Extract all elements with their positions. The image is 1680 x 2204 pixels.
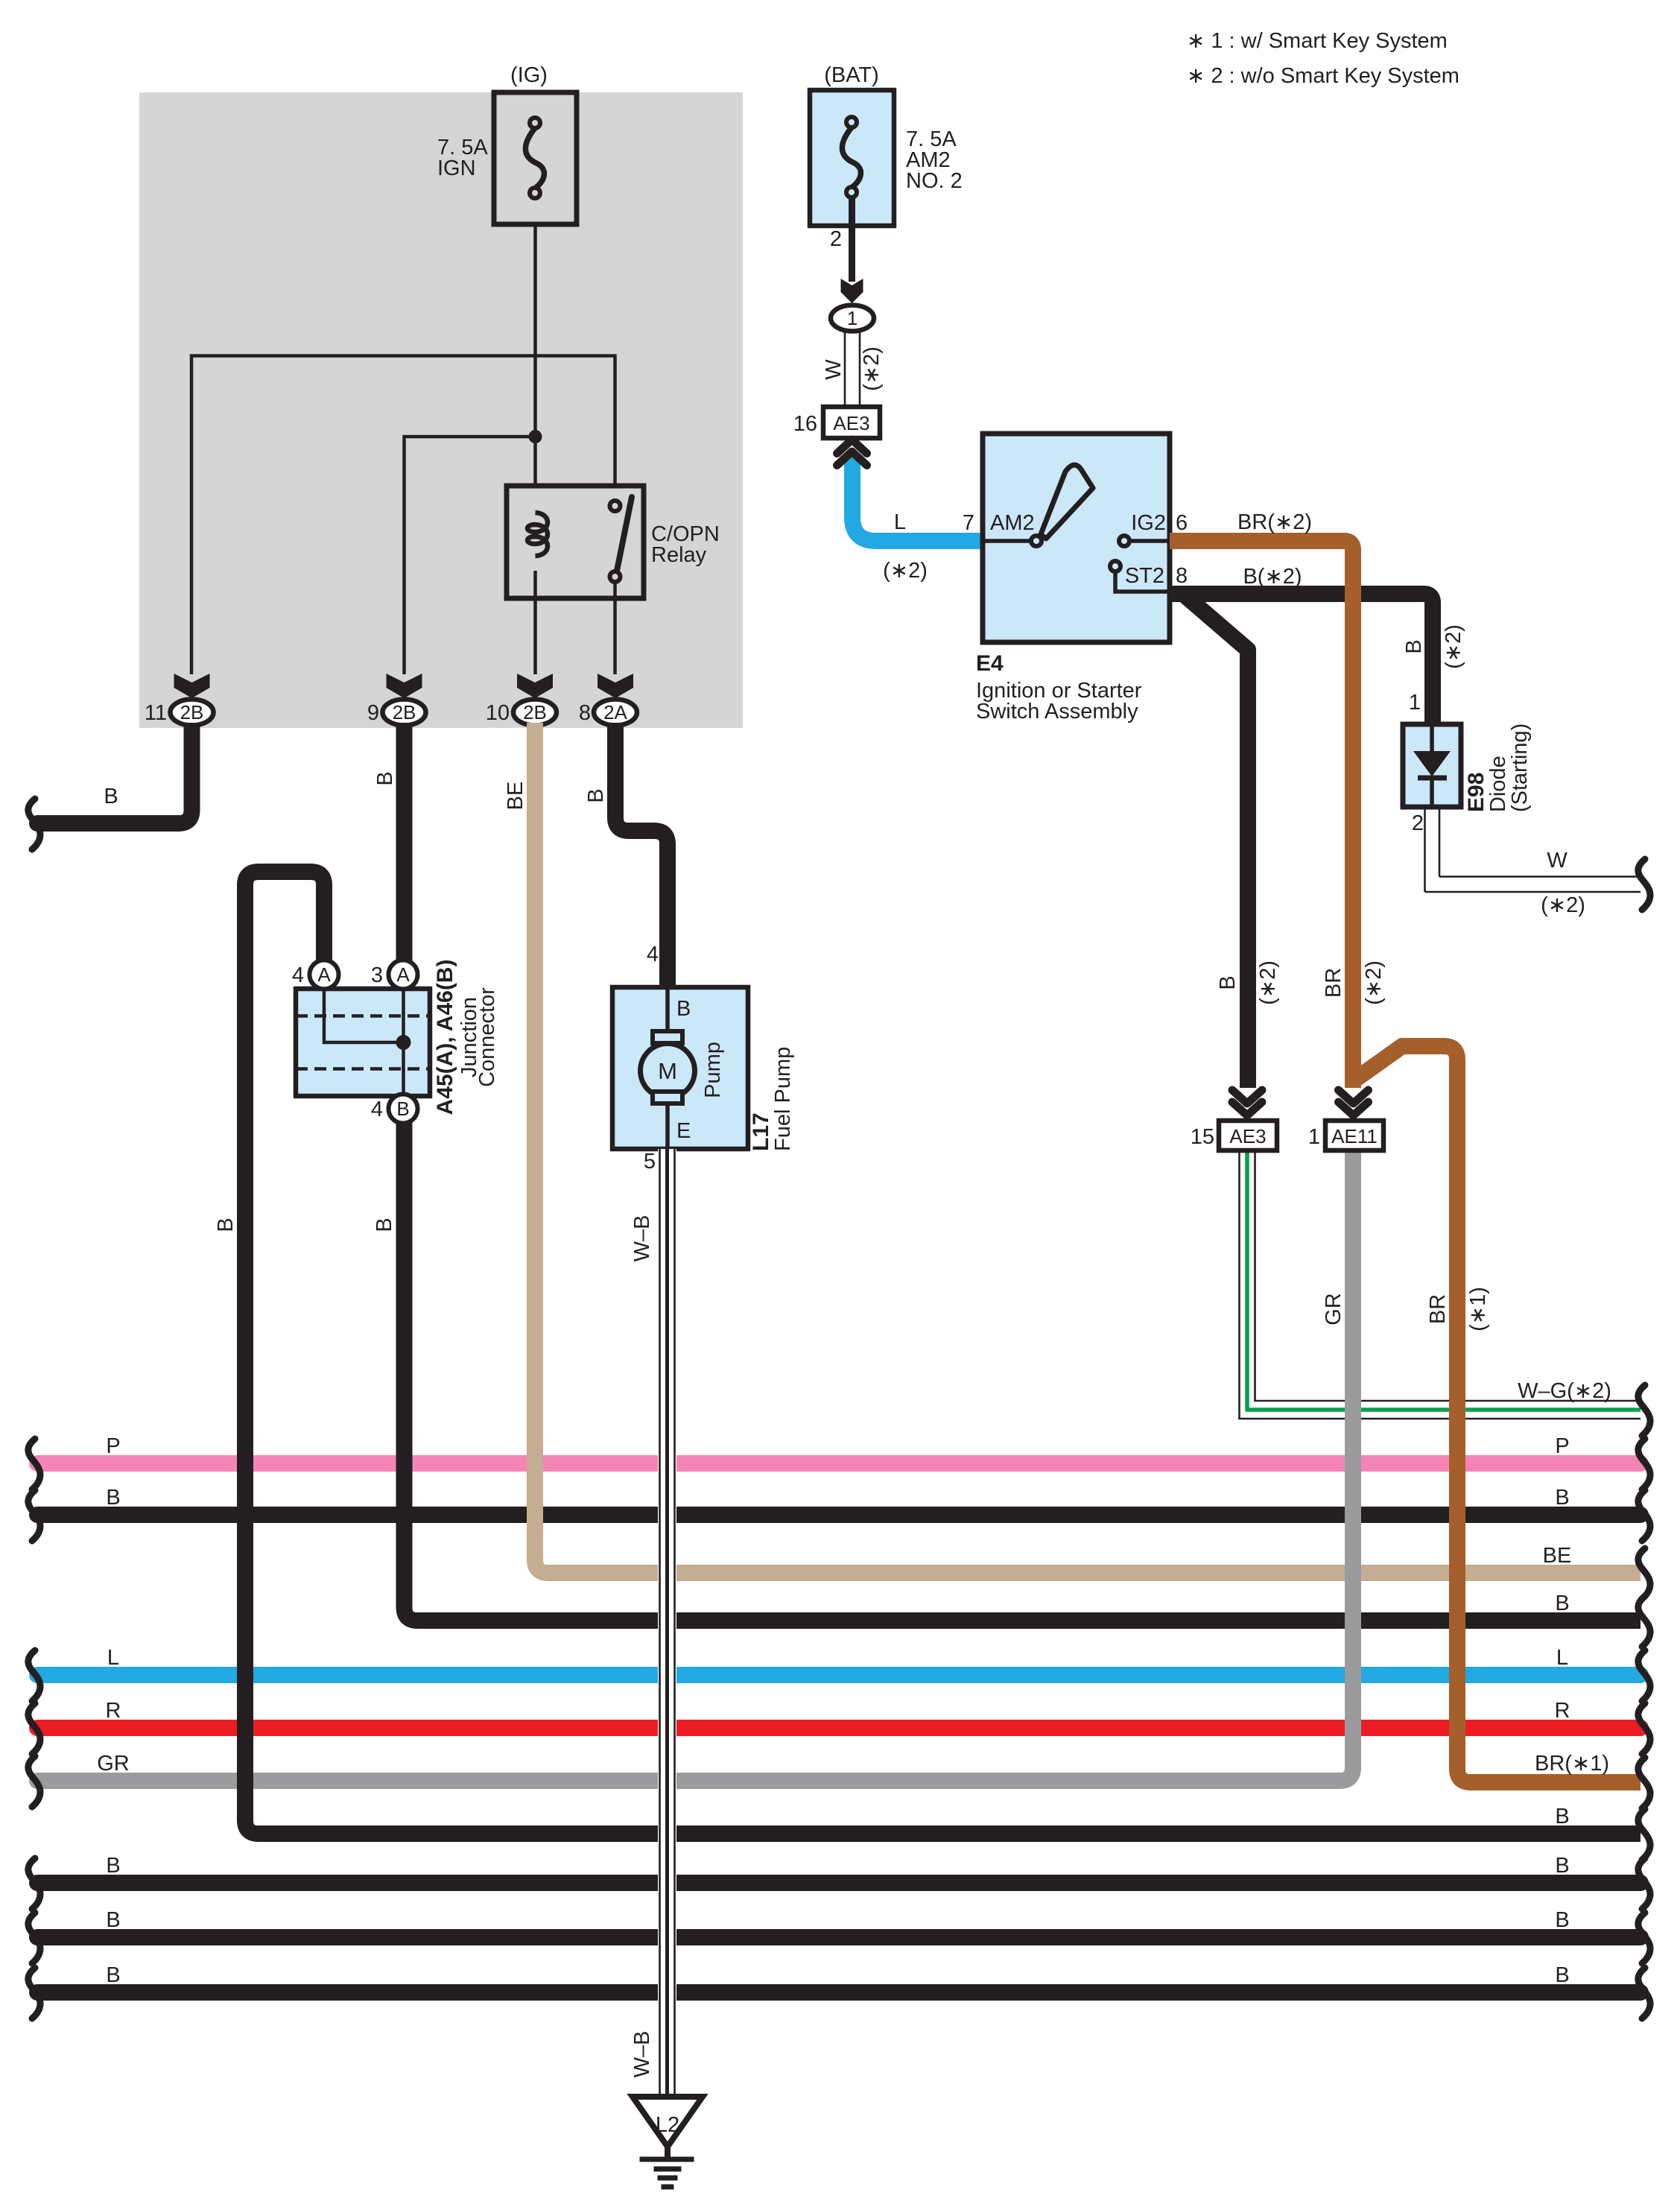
fuse IGN box	[494, 92, 577, 224]
bus B y2527	[37, 1875, 1641, 1891]
svg-text:4: 4	[647, 943, 659, 966]
svg-text:1: 1	[1308, 1125, 1320, 1149]
wire: horizontal branch y478	[191, 356, 615, 675]
svg-text:∗ 1 : w/ Smart Key System: ∗ 1 : w/ Smart Key System	[1187, 29, 1448, 53]
bus B y2674 right curl	[1638, 1968, 1650, 2018]
svg-text:8: 8	[1176, 564, 1188, 588]
svg-text:BR: BR	[1426, 1294, 1450, 1324]
wire W-G right curl	[1638, 1385, 1650, 1436]
fuse AM2 box	[810, 90, 894, 226]
svg-text:B: B	[1216, 975, 1240, 989]
svg-text:B: B	[676, 997, 691, 1021]
diode internal wire bottom	[1430, 778, 1434, 807]
svg-text:B: B	[1402, 639, 1426, 653]
connector box 1 AE11	[1325, 1121, 1383, 1150]
svg-text:(∗2): (∗2)	[1362, 960, 1386, 1005]
connector arrow 10	[517, 674, 553, 698]
wire W-G from connector 15 AE3	[1238, 1150, 1641, 1419]
E4 ignition switch box	[983, 434, 1170, 642]
wire B stub curl	[28, 799, 40, 849]
bus GR left curl	[28, 1756, 40, 1807]
svg-text:E98: E98	[1464, 773, 1489, 812]
svg-text:B: B	[104, 785, 118, 808]
connector ellipse 1	[831, 305, 874, 332]
label C/OPN Relay	[651, 522, 720, 567]
svg-text:B: B	[1555, 1963, 1569, 1987]
svg-text:4: 4	[371, 1098, 383, 1121]
connector arrow 9	[387, 674, 422, 698]
diode bar	[1418, 776, 1447, 781]
wire: branch to connector 9	[405, 437, 536, 674]
E4 AM2 contact wire	[983, 539, 1032, 543]
svg-text:B: B	[106, 1486, 120, 1510]
svg-text:BR(∗1): BR(∗1)	[1535, 1752, 1609, 1776]
svg-text:2A: 2A	[603, 701, 627, 723]
svg-text:B: B	[1555, 1854, 1569, 1878]
svg-text:2: 2	[1412, 811, 1424, 835]
svg-text:7: 7	[963, 511, 974, 535]
diode triangle	[1413, 751, 1451, 776]
bus B y2527 right curl	[1638, 1858, 1650, 1909]
ground stem	[665, 2147, 671, 2159]
relay coil	[527, 513, 548, 556]
svg-text:B(∗2): B(∗2)	[1243, 565, 1302, 589]
E4 AM2 contact circle	[1031, 536, 1042, 546]
label 7.5A AM2 NO.2	[906, 127, 963, 193]
junction connector dashed line 2	[296, 1067, 430, 1071]
svg-text:E4: E4	[976, 651, 1004, 676]
svg-text:Connector: Connector	[475, 987, 499, 1087]
svg-text:(∗2): (∗2)	[883, 559, 928, 583]
svg-text:(∗1): (∗1)	[1466, 1287, 1490, 1331]
svg-text:6: 6	[1176, 511, 1188, 535]
svg-text:B: B	[106, 1963, 120, 1987]
bus L right curl	[1638, 1650, 1650, 1701]
fuse AM2 symbol	[842, 117, 860, 197]
svg-text:W: W	[822, 359, 846, 380]
wire fuse AM2 down	[849, 197, 855, 282]
svg-text:P: P	[106, 1434, 120, 1458]
svg-text:B: B	[396, 1098, 409, 1120]
connector arrow 8	[597, 674, 633, 698]
fuel pump pin E wire	[665, 1103, 670, 1149]
svg-text:3: 3	[371, 963, 383, 987]
wire W from connector 1 to AE3	[845, 332, 860, 408]
wire B y2175 right curl	[1638, 1596, 1650, 1647]
svg-text:IGN: IGN	[437, 156, 476, 180]
svg-text:NO. 2: NO. 2	[906, 169, 963, 193]
svg-text:Pump: Pump	[701, 1042, 725, 1098]
svg-text:A: A	[317, 963, 331, 986]
svg-text:L: L	[107, 1646, 119, 1670]
chevrons down into AE3 15	[1232, 1090, 1262, 1115]
wire B y2461 right curl	[1638, 1809, 1650, 1860]
fuel pump motor brush bottom	[653, 1092, 682, 1103]
bus P pink	[37, 1455, 1641, 1472]
svg-text:B: B	[106, 1908, 120, 1932]
bus R left curl	[28, 1703, 40, 1754]
svg-text:GR: GR	[97, 1752, 130, 1776]
svg-text:M: M	[658, 1058, 677, 1084]
bus B y2033 left curl	[28, 1490, 40, 1541]
wire B from E4 ST2 to diode and AE3 branch	[1170, 594, 1433, 724]
svg-text:AE3: AE3	[833, 412, 869, 434]
wire L blue from E4 AM2 to AE3	[852, 455, 983, 541]
svg-text:9: 9	[367, 701, 379, 725]
svg-text:(∗2): (∗2)	[1541, 893, 1585, 917]
relay switch bottom contact	[610, 571, 621, 582]
svg-text:L: L	[1556, 1646, 1568, 1670]
svg-text:W–B: W–B	[630, 2031, 654, 2078]
svg-text:(Starting): (Starting)	[1508, 723, 1532, 812]
relay C/OPN box	[507, 486, 644, 598]
diode internal wire top	[1430, 724, 1434, 753]
connector box 16 AE3	[823, 407, 880, 438]
svg-text:2B: 2B	[180, 701, 204, 723]
svg-text:Switch Assembly: Switch Assembly	[976, 700, 1138, 723]
svg-text:4: 4	[292, 963, 304, 987]
wire B stub from connector 11	[37, 723, 192, 823]
relay switch top contact	[610, 501, 621, 511]
bus B y2674	[37, 1984, 1641, 2001]
svg-text:AE11: AE11	[1331, 1125, 1378, 1147]
svg-text:Relay: Relay	[651, 543, 707, 567]
svg-text:(∗2): (∗2)	[1256, 960, 1280, 1005]
diode E98 box	[1403, 724, 1461, 807]
fuel pump box	[612, 987, 748, 1149]
connector ellipse 11 2B	[171, 700, 214, 726]
wire BR branch to bus BR(*1)	[1353, 1046, 1641, 1782]
wire BE tan from connector 10 to bus	[535, 723, 1641, 1573]
svg-text:B: B	[1555, 1486, 1569, 1510]
chevrons up into AE3	[837, 440, 867, 466]
svg-text:L17: L17	[749, 1112, 773, 1151]
svg-text:B: B	[106, 1854, 120, 1878]
relay switch blade	[617, 497, 632, 571]
svg-text:R: R	[106, 1699, 121, 1723]
svg-text:BE: BE	[504, 782, 527, 811]
svg-text:ST2: ST2	[1125, 564, 1164, 588]
bus R red	[37, 1720, 1641, 1736]
connector ellipse 10 2B	[513, 700, 557, 726]
svg-text:BE: BE	[1543, 1544, 1572, 1568]
connector box 15 AE3	[1219, 1121, 1277, 1150]
bus L left curl	[28, 1650, 40, 1701]
svg-text:W: W	[1547, 849, 1568, 873]
wire BR from E4 IG2 to connector 1 AE11	[1170, 541, 1353, 1088]
junction connector internal wire left	[324, 989, 404, 1042]
ground triangle L2	[633, 2097, 703, 2147]
svg-text:B: B	[373, 771, 397, 785]
bus R right curl	[1638, 1703, 1650, 1754]
bus B y2033	[37, 1507, 1641, 1523]
connector ellipse 8 2A	[594, 700, 637, 726]
svg-text:2: 2	[830, 227, 842, 251]
wire B from connector 8 to fuel pump	[615, 723, 668, 987]
svg-text:(BAT): (BAT)	[824, 63, 879, 87]
junction connector pin circle A3	[389, 960, 418, 989]
ground bars	[640, 2159, 694, 2187]
E4 ST2 contact circle	[1110, 561, 1120, 571]
junction connector internal node	[396, 1035, 411, 1050]
bus P left curl	[28, 1439, 40, 1489]
E4 ST2 contact wire	[1115, 571, 1170, 592]
E4 IG2 contact circle	[1119, 536, 1129, 546]
svg-text:BR: BR	[1322, 968, 1345, 998]
svg-text:W–G(∗2): W–G(∗2)	[1518, 1379, 1611, 1403]
E4 IG2 contact wire	[1129, 539, 1170, 543]
svg-text:1: 1	[847, 307, 858, 329]
bus B y2600 right curl	[1638, 1913, 1650, 1963]
svg-text:AM2: AM2	[990, 511, 1035, 535]
svg-text:5: 5	[644, 1150, 656, 1174]
svg-text:R: R	[1555, 1699, 1570, 1723]
wire BE right curl	[1638, 1548, 1650, 1599]
svg-text:BR(∗2): BR(∗2)	[1237, 510, 1312, 534]
svg-text:E: E	[676, 1119, 691, 1143]
wire: fuse IGN down to relay coil	[533, 224, 537, 488]
svg-text:10: 10	[486, 701, 510, 725]
junction connector internal wire right	[402, 989, 405, 1096]
svg-text:15: 15	[1191, 1125, 1214, 1149]
svg-text:Fuel Pump: Fuel Pump	[771, 1047, 795, 1151]
node: junction dot	[529, 430, 542, 443]
junction connector A45/A46 box	[296, 989, 430, 1096]
svg-text:B: B	[1555, 1908, 1569, 1932]
svg-text:8: 8	[579, 701, 591, 725]
svg-text:A: A	[396, 963, 410, 986]
bus B y2674 left curl	[28, 1968, 40, 2018]
wire B from junction connector B pin to bus	[405, 1123, 1641, 1621]
fuel pump motor circle	[641, 1044, 695, 1098]
svg-text:16: 16	[793, 412, 817, 436]
svg-text:2B: 2B	[393, 701, 416, 723]
wire W from diode pin 2	[1425, 807, 1641, 892]
connector ellipse 9 2B	[383, 700, 426, 726]
svg-text:IG2: IG2	[1131, 511, 1166, 535]
wire 9 upper thick segment	[396, 723, 413, 961]
svg-text:AE3: AE3	[1229, 1125, 1266, 1147]
svg-text:∗ 2 : w/o Smart Key System: ∗ 2 : w/o Smart Key System	[1187, 64, 1459, 88]
bus B y2527 left curl	[28, 1858, 40, 1909]
svg-text:11: 11	[145, 701, 167, 725]
fuse IGN symbol	[525, 118, 544, 198]
svg-text:A45(A), A46(B): A45(A), A46(B)	[433, 960, 457, 1115]
svg-text:L: L	[894, 510, 906, 534]
wire GR bus and up to connector 1 AE11	[37, 1150, 1353, 1781]
bus B y2600 left curl	[28, 1913, 40, 1963]
svg-text:(∗2): (∗2)	[1442, 624, 1465, 669]
bus P right curl	[1638, 1439, 1650, 1489]
svg-text:1: 1	[1409, 691, 1421, 715]
wire W diode right curl	[1638, 859, 1650, 910]
junction connector pin circle B4	[389, 1095, 418, 1124]
fuel pump pin B wire	[665, 987, 670, 1032]
svg-text:B: B	[1555, 1805, 1569, 1828]
svg-text:B: B	[1555, 1592, 1569, 1615]
svg-text:P: P	[1555, 1434, 1569, 1458]
wire: relay coil down to connector 10	[533, 571, 537, 674]
svg-text:B: B	[584, 788, 608, 802]
chevrons down into AE11	[1339, 1090, 1369, 1115]
wire W-B from fuel pump to ground	[658, 1149, 676, 2097]
E4 key wedge	[1041, 465, 1093, 539]
wire B from junction connector A4 over to bus y2461	[245, 872, 1641, 1834]
svg-text:(IG): (IG)	[510, 63, 548, 87]
gray background box	[139, 92, 743, 728]
bus B y2033 right curl	[1638, 1490, 1650, 1541]
svg-text:(∗2): (∗2)	[860, 346, 884, 391]
arrow into connector 1	[841, 279, 863, 303]
wire: relay switch down to connector 8	[613, 582, 617, 674]
wire B branch diagonal to connector 15	[1183, 594, 1248, 1088]
E4 name label	[976, 651, 1142, 723]
svg-text:Diode: Diode	[1486, 756, 1510, 812]
connector arrow 11	[174, 674, 210, 698]
svg-text:2B: 2B	[523, 701, 547, 723]
bus B y2600	[37, 1929, 1641, 1945]
svg-text:B: B	[373, 1217, 396, 1232]
svg-text:B: B	[214, 1217, 238, 1232]
junction connector pin circle A4	[310, 960, 339, 989]
bus L blue	[37, 1667, 1641, 1683]
svg-text:GR: GR	[1322, 1293, 1345, 1326]
svg-text:L2: L2	[656, 2113, 679, 2137]
fuel pump motor brush top	[653, 1031, 682, 1043]
bus BR right curl	[1638, 1758, 1650, 1808]
label 7.5A IGN	[437, 136, 488, 180]
svg-text:W–B: W–B	[630, 1215, 654, 1262]
junction connector dashed line 1	[296, 1014, 430, 1018]
